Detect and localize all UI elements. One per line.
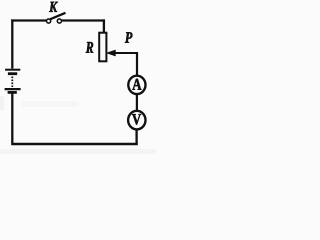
- wire: voltmeter down to bottom corner: [135, 129, 137, 145]
- rheostat R body: [99, 33, 106, 62]
- cell 1 short thick plate (-): [8, 72, 17, 75]
- cell 1 long plate (+): [5, 69, 20, 71]
- cell 2 long plate (+): [5, 88, 21, 90]
- switch K: [47, 13, 66, 23]
- voltmeter V: [128, 111, 145, 130]
- wiper arrowhead: [107, 50, 116, 56]
- cell 2 short thick plate (-): [8, 91, 17, 94]
- switch right contact circle: [57, 19, 61, 23]
- wire: top-right horizontal (switch to corner): [62, 19, 105, 21]
- battery (two cells with dotted gap): [5, 70, 21, 93]
- wire: bottom horizontal: [12, 143, 138, 145]
- switch blade: [50, 13, 65, 19]
- switch left contact circle: [47, 19, 51, 23]
- wire: left vertical (top corner down to battery): [11, 19, 13, 68]
- label R: [86, 42, 93, 53]
- ammeter A: [128, 76, 145, 94]
- label K: [49, 2, 58, 12]
- label P: [125, 32, 132, 42]
- wire: top-left horizontal (battery top to switch): [11, 19, 46, 21]
- wire: between ammeter and voltmeter: [136, 94, 138, 111]
- wire: left vertical below battery: [11, 93, 13, 145]
- wiper P arrow: [107, 50, 138, 76]
- dotted continuation: [11, 77, 13, 88]
- wiper horizontal wire: [115, 52, 139, 54]
- wiper down wire to ammeter: [136, 52, 138, 76]
- wire: stub down from top corner into rheostat: [103, 19, 105, 33]
